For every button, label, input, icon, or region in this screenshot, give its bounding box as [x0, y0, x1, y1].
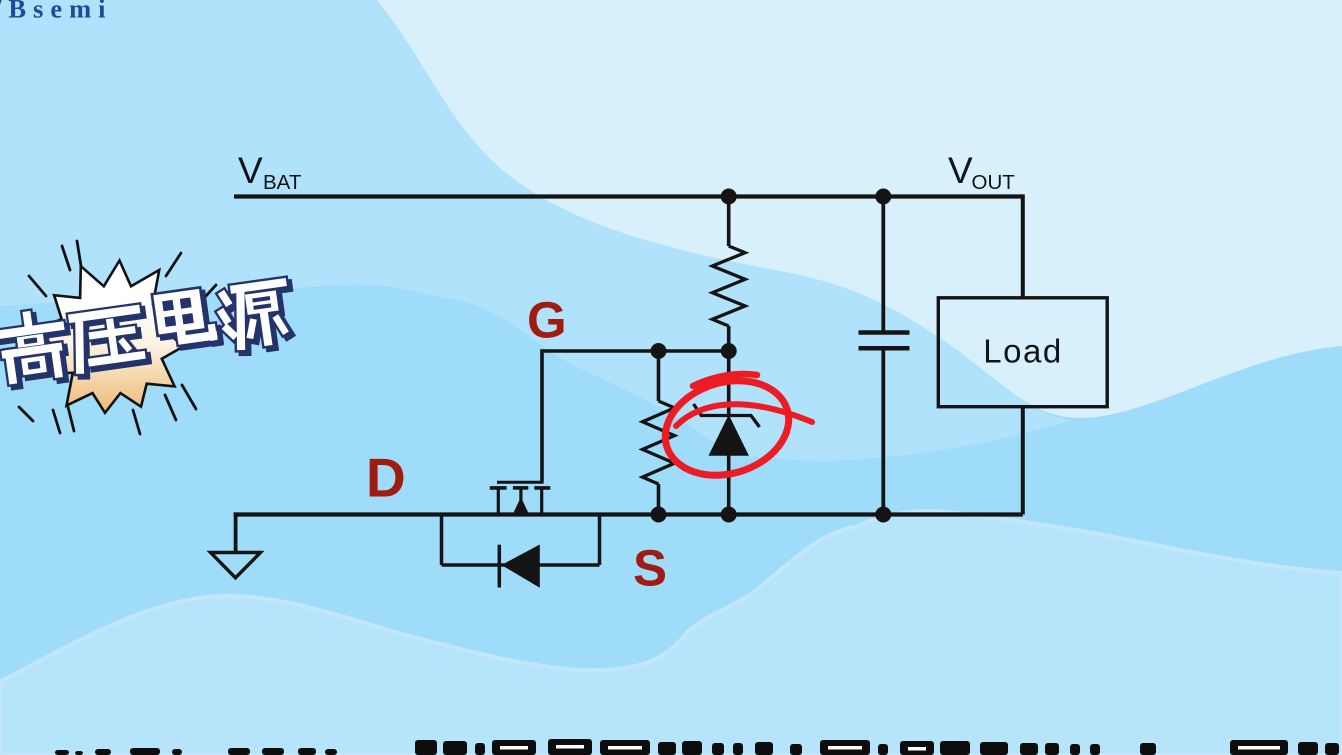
capacitor C1 top wire	[881, 194, 885, 333]
wire: bottom source rail	[234, 512, 1023, 516]
capacitor C1 bottom wire	[881, 348, 885, 514]
resistor R2 (gate to source)	[657, 351, 661, 401]
body diode D1 cathode bar	[498, 545, 502, 588]
body diode D1 triangle	[502, 545, 540, 588]
background light top-left region	[0, 0, 1073, 461]
starburst badge	[35, 261, 183, 413]
badge text 高	[0, 311, 70, 385]
wire: VOUT drop to Load top	[1021, 194, 1025, 298]
svg-text:Load: Load	[983, 333, 1062, 370]
wire: gate vertical	[540, 349, 544, 482]
zener diode D2 anode triangle	[709, 416, 748, 455]
node dot source-R2	[651, 507, 667, 523]
node dot source-zener	[721, 507, 737, 523]
background light bottom wave	[0, 511, 1342, 755]
svg-text:D: D	[366, 447, 406, 509]
zener diode D2 cathode bar	[694, 404, 760, 427]
wire: Load bottom drop	[1021, 407, 1025, 515]
wire: ground stem	[234, 512, 238, 552]
body diode D1 right leg	[598, 513, 602, 566]
svg-text:S: S	[633, 540, 667, 597]
svg-text:V: V	[238, 150, 263, 191]
svg-text:G: G	[527, 292, 567, 349]
node dot VBAT-C1	[875, 189, 891, 205]
badge text 电	[150, 285, 217, 349]
load box U1	[938, 298, 1107, 407]
capacitor C1 plates	[859, 330, 910, 335]
red marker ellipse around zener	[653, 366, 800, 490]
transistor Q1 body stub and arrow	[519, 489, 522, 500]
svg-text:BAT: BAT	[263, 171, 302, 194]
zener diode D2 wire bottom	[727, 455, 731, 515]
background pale top-right region	[377, 0, 1342, 418]
svg-text:/Bsemi: /Bsemi	[0, 0, 113, 24]
transistor Q1 drain stub	[497, 489, 500, 515]
body diode D1 left leg	[440, 513, 444, 566]
transistor Q1 gate bar	[497, 481, 544, 484]
badge text 压	[73, 309, 147, 374]
wire: VBAT top rail	[234, 194, 1023, 198]
transistor Q1 source stub	[540, 489, 543, 515]
node dot VBAT-R1	[721, 189, 737, 205]
transistor Q1 channel contacts	[490, 486, 507, 490]
body diode D1 bottom wire	[442, 563, 600, 567]
node dot gate-R2	[651, 343, 667, 359]
wire: gate line G	[542, 349, 729, 353]
ground symbol	[211, 553, 261, 578]
node dot gate-zener	[721, 343, 737, 359]
svg-text:V: V	[948, 150, 973, 191]
resistor R1 (VBAT to gate node)	[727, 194, 731, 246]
spark lines	[19, 241, 216, 434]
svg-text:OUT: OUT	[972, 171, 1016, 194]
zener diode D2 wire top	[727, 351, 731, 416]
bottom cut-off caption text	[55, 739, 1339, 755]
badge text 源	[219, 282, 294, 352]
node dot source-C1	[875, 507, 891, 523]
